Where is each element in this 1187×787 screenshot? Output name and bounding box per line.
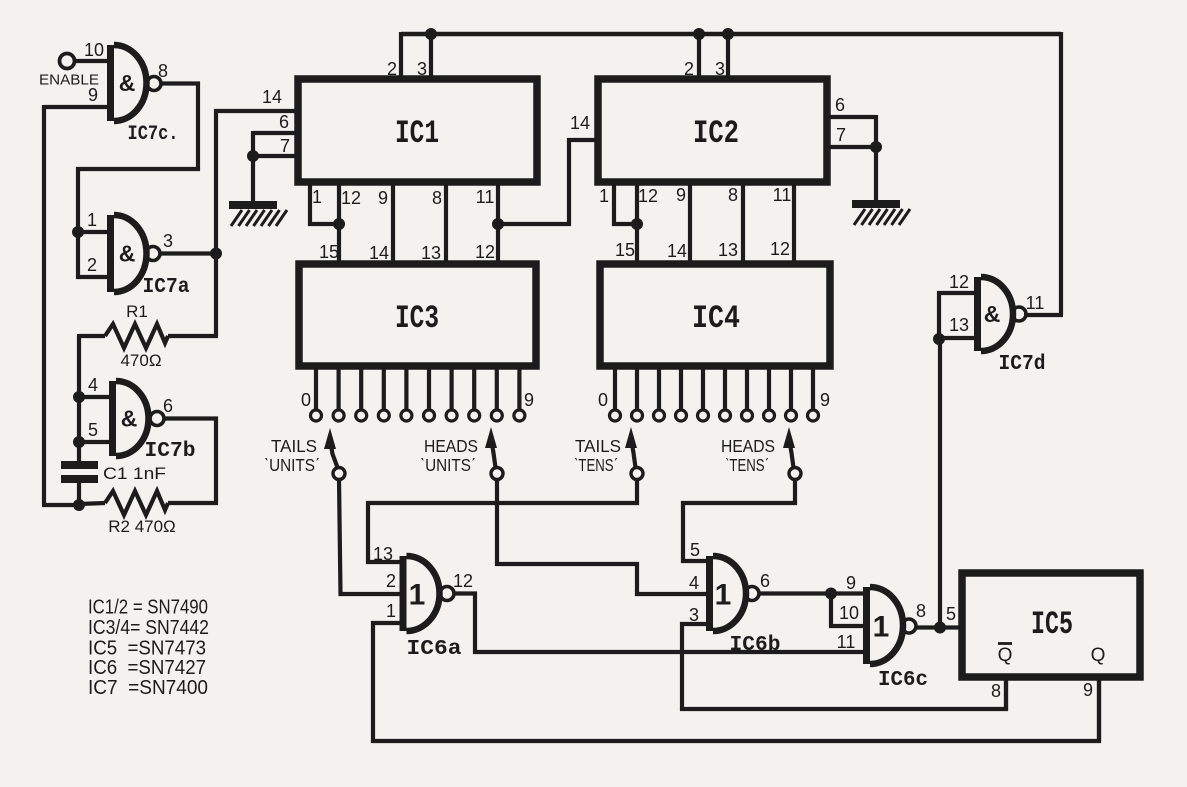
wire IC3 output 2 (359, 366, 363, 410)
wire IC4 output 4 (701, 366, 705, 410)
svg-text:IC4: IC4 (692, 300, 740, 337)
terminal IC4 output 8 (786, 410, 797, 421)
svg-text:8: 8 (991, 681, 1001, 701)
svg-text:13: 13 (421, 243, 441, 263)
node junction IC1.1-IC1.12 (333, 218, 345, 230)
svg-text:12: 12 (949, 272, 969, 292)
svg-text:6: 6 (760, 571, 770, 591)
svg-text:&: & (984, 301, 1001, 327)
svg-text:ˋUNITSˊ: ˋUNITSˊ (420, 455, 476, 475)
wire IC3 output 1 (337, 366, 341, 410)
wire R1 right lead (168, 334, 218, 338)
svg-text:6: 6 (279, 112, 289, 132)
svg-text:8: 8 (432, 188, 442, 208)
svg-text:IC7 =SN7400: IC7 =SN7400 (88, 677, 208, 699)
node junction bottom left (73, 499, 85, 511)
svg-text:IC6b: IC6b (730, 634, 781, 657)
svg-text:1: 1 (87, 210, 97, 230)
terminal IC3 output 0 (311, 410, 322, 421)
svg-text:0: 0 (598, 390, 608, 410)
wire R2 right lead (168, 501, 218, 505)
wire IC5 pin 8 Qbar down (1004, 677, 1008, 711)
svg-text:1: 1 (599, 186, 609, 206)
gate IC6b output bubble (745, 587, 759, 601)
wire R1 left lead (79, 334, 105, 338)
wire IC2 pin3 to bus (726, 34, 730, 79)
wire bus right vertical to IC7d output (1059, 32, 1063, 315)
svg-text:10: 10 (84, 40, 104, 60)
svg-text:14: 14 (667, 241, 687, 261)
terminal IC4 output 0 (610, 410, 621, 421)
gate IC7c output bubble (147, 77, 161, 91)
wire IC7b input vertical (77, 334, 81, 463)
gate IC7b output bubble (150, 412, 164, 426)
terminal IC4 output 9 (808, 410, 819, 421)
wire IC1 pin 6 to ground rail (253, 131, 298, 135)
wire IC7c output to IC7a inputs (78, 84, 198, 233)
svg-text:Q: Q (998, 645, 1013, 666)
gate IC7d NAND (974, 277, 981, 351)
svg-text:11: 11 (476, 187, 495, 207)
gate IC7b NAND (109, 381, 116, 456)
wire IC2 pin 6 (827, 115, 876, 119)
svg-text:2: 2 (386, 571, 396, 591)
terminal IC3 output 8 (491, 410, 502, 421)
svg-text:5: 5 (88, 420, 98, 440)
wire IC7d pin 13 (939, 336, 974, 340)
wire TAILS UNITS to IC6a pin 2 (339, 479, 400, 594)
terminal IC3 output 5 (424, 410, 435, 421)
wire IC7a out up to IC1 pin 14 (216, 111, 298, 254)
svg-text:14: 14 (570, 113, 590, 133)
svg-text:1: 1 (409, 579, 426, 612)
wire ground drop IC1 (251, 131, 255, 201)
node junction IC7a output (210, 248, 222, 260)
wire IC2.9 to IC4.14 (688, 182, 692, 264)
svg-text:11: 11 (1026, 293, 1045, 313)
svg-text:9: 9 (88, 85, 98, 105)
node junction IC7b pin5 (73, 436, 85, 448)
wire left rail bottom to junction (42, 503, 79, 507)
svg-text:IC1/2 = SN7490: IC1/2 = SN7490 (88, 597, 208, 619)
capacitor C1 bottom plate (61, 475, 98, 483)
ground symbol left (229, 201, 277, 209)
svg-text:12: 12 (770, 239, 790, 259)
wire HEADS UNITS to IC6b pin 4 (497, 479, 706, 594)
capacitor C1 top plate (61, 461, 98, 469)
wire IC4 output 2 (657, 366, 661, 410)
wire IC2 pin1 stub (614, 182, 637, 224)
wire IC6b pin 3 from IC5 Qbar (682, 624, 1006, 709)
terminal IC4 output 4 (698, 410, 709, 421)
wire IC3 output 9 (517, 366, 521, 410)
gate IC7a NAND (107, 215, 114, 292)
gate IC6a NOR (400, 556, 407, 631)
wire IC1 pin1 stub (310, 182, 339, 224)
svg-text:9: 9 (1083, 680, 1093, 700)
wire ENABLE to IC7c pin 10 (75, 59, 107, 63)
node junction IC2.1-IC2.12 (631, 218, 643, 230)
wire IC7b output to R2 (164, 419, 216, 504)
svg-text:12: 12 (341, 188, 361, 208)
svg-text:8: 8 (728, 185, 738, 205)
top reset bus wire (401, 32, 1061, 37)
svg-text:&: & (119, 70, 136, 96)
svg-text:7: 7 (280, 136, 290, 156)
wire IC6b output to IC6c pins 9,10 (759, 591, 863, 595)
wire HEADS TENS to IC6b pin 5 (683, 479, 795, 561)
wire IC6c pin 10 loop (831, 594, 863, 627)
svg-text:9: 9 (820, 390, 830, 410)
wire IC2.8 to IC4.13 (741, 182, 745, 264)
svg-text:ˋTENSˊ: ˋTENSˊ (725, 455, 769, 475)
node junction bus-IC1.3 (425, 28, 437, 40)
wire IC4 output 9 (811, 366, 815, 410)
node junction IC7b pin4 (73, 391, 85, 403)
svg-text:0: 0 (301, 390, 311, 410)
wire IC5 pin 9 Q down (1097, 677, 1101, 741)
wire IC7b pin 4 (79, 395, 109, 399)
svg-text:14: 14 (262, 87, 282, 107)
svg-text:13: 13 (373, 544, 393, 564)
wire IC1.8 to IC3.13 (444, 182, 448, 264)
svg-text:1: 1 (873, 611, 890, 644)
IC block IC1 (298, 79, 537, 182)
svg-text:7: 7 (836, 125, 846, 145)
wire IC4 output 7 (767, 366, 771, 410)
svg-text:1: 1 (312, 187, 322, 207)
terminal IC4 output 5 (720, 410, 731, 421)
wire IC1 pin3 to bus (429, 34, 433, 80)
wire IC1.12 to IC3.15 (337, 182, 341, 264)
svg-text:ˋUNITSˊ: ˋUNITSˊ (264, 455, 320, 475)
svg-text:5: 5 (946, 604, 956, 624)
wire IC3 output 7 (472, 366, 476, 410)
wire IC7d inputs vertical from IC6c out (938, 339, 942, 628)
switch wiper TAILS TENS (632, 441, 636, 468)
svg-text:9: 9 (846, 573, 856, 593)
svg-text:2: 2 (87, 255, 97, 275)
terminal IC4 output 3 (676, 410, 687, 421)
IC block IC3 (299, 264, 536, 366)
wire IC7a out down to R1 (214, 254, 218, 337)
node junction bus-IC2.2 (693, 28, 705, 40)
svg-text:12: 12 (475, 242, 495, 262)
terminal IC4 output 1 (632, 410, 643, 421)
svg-text:470Ω: 470Ω (120, 351, 161, 370)
svg-text:C1 1nF: C1 1nF (103, 465, 166, 483)
wire IC3 output 0 (314, 366, 318, 410)
terminal IC3 output 3 (378, 410, 389, 421)
switch wiper HEADS UNITS (492, 441, 496, 468)
svg-text:15: 15 (319, 242, 339, 262)
node junction bus-IC2.3 (722, 28, 734, 40)
wire IC7b pin 5 (79, 440, 109, 444)
svg-text:IC3: IC3 (395, 300, 439, 337)
wire IC2.12 to IC4.15 (635, 182, 639, 264)
wire IC3 output 4 (404, 366, 408, 410)
terminal ENABLE (60, 54, 75, 69)
wire IC4 output 6 (745, 366, 749, 410)
gate IC7a output bubble (146, 247, 160, 261)
terminal IC4 output 6 (742, 410, 753, 421)
node junction IC7d pin 13 (933, 333, 945, 345)
wire IC6a output to IC6c pin 11 (454, 594, 863, 653)
switch wiper TAILS UNITS (331, 442, 338, 468)
wire IC2.11 to IC4.12 (792, 182, 796, 264)
svg-text:3: 3 (163, 231, 173, 251)
gate IC7c NAND (107, 45, 114, 121)
wire IC4 output 3 (679, 366, 683, 410)
wire IC1 pin2 to bus (399, 32, 403, 80)
terminal IC3 output 9 (514, 410, 525, 421)
terminal IC3 output 4 (401, 410, 412, 421)
wire R2 left lead (79, 503, 105, 504)
svg-text:14: 14 (369, 243, 389, 263)
svg-text:Q: Q (1091, 645, 1106, 666)
wire IC4 output 0 (613, 366, 617, 410)
wire IC6c output to IC5 pin 5 (916, 625, 962, 629)
svg-text:IC5: IC5 (1031, 606, 1073, 643)
gate IC6c output bubble (902, 619, 916, 633)
svg-text:IC6c: IC6c (878, 669, 928, 692)
wire IC7a output (160, 251, 216, 255)
terminal IC4 output 7 (764, 410, 775, 421)
svg-text:IC3/4= SN7442: IC3/4= SN7442 (88, 617, 209, 639)
svg-text:1: 1 (386, 601, 396, 621)
svg-text:9: 9 (676, 185, 686, 205)
svg-text:ˋTENSˊ: ˋTENSˊ (574, 455, 618, 475)
svg-text:IC6 =SN7427: IC6 =SN7427 (88, 657, 206, 679)
switch wiper HEADS TENS (790, 441, 794, 468)
wire IC3 output 5 (427, 366, 431, 410)
svg-text:5: 5 (690, 540, 700, 560)
svg-text:13: 13 (718, 240, 738, 260)
node junction IC7a pin1 (72, 226, 84, 238)
wire IC4 output 1 (635, 366, 639, 410)
node junction IC2 pin7 ground (870, 141, 882, 153)
wire IC3 output 6 (450, 366, 454, 410)
wire IC3 output 8 (495, 366, 499, 410)
node junction IC6c out to IC7d (934, 622, 946, 634)
svg-text:IC2: IC2 (693, 115, 739, 152)
svg-text:9: 9 (524, 390, 534, 410)
wire IC7a pin 1 (78, 230, 107, 234)
wire IC1 pin 7 to ground rail (253, 154, 298, 158)
svg-text:HEADS: HEADS (721, 436, 775, 456)
svg-text:R2 470Ω: R2 470Ω (108, 517, 176, 536)
node junction IC6b out (825, 588, 837, 600)
wire IC2 pin 14 from IC1.11 column (498, 140, 598, 224)
svg-text:HEADS: HEADS (424, 436, 478, 456)
wire left rail vertical (42, 105, 46, 505)
svg-text:10: 10 (839, 603, 859, 623)
svg-text:6: 6 (835, 95, 845, 115)
svg-text:TAILS: TAILS (575, 436, 621, 456)
svg-text:9: 9 (378, 188, 388, 208)
svg-text:15: 15 (615, 240, 635, 260)
wire IC7d output pin 11 (1024, 313, 1063, 317)
wire TAILS TENS to IC6a pin 13 (368, 479, 637, 562)
svg-text:&: & (121, 406, 138, 432)
wire IC4 output 8 (789, 366, 793, 410)
svg-text:6: 6 (163, 396, 173, 416)
gate IC6c NOR (863, 587, 870, 664)
node junction IC1.11 crosswire (492, 218, 504, 230)
wire IC7c pin 9 from left rail (44, 105, 107, 109)
wire IC4 output 5 (723, 366, 727, 410)
gate IC6b NOR (706, 556, 713, 631)
svg-text:12: 12 (453, 571, 473, 591)
terminal IC3 output 1 (333, 410, 344, 421)
terminal IC3 output 7 (469, 410, 480, 421)
svg-text:8: 8 (158, 61, 168, 81)
svg-text:TAILS: TAILS (271, 436, 317, 456)
wire IC7a pin 2 loop (78, 232, 107, 277)
terminal IC3 output 6 (446, 410, 457, 421)
svg-text:4: 4 (689, 573, 699, 593)
gate IC7d output bubble (1012, 307, 1026, 321)
wire IC1.9 to IC3.14 (391, 182, 395, 264)
IC block IC4 (600, 264, 830, 366)
svg-text:IC7c.: IC7c. (128, 123, 179, 146)
svg-text:IC7a: IC7a (143, 276, 190, 299)
wire IC7d pin 12 (939, 293, 974, 338)
resistor R1 (105, 324, 168, 348)
wire ground drop IC2 (874, 115, 878, 200)
svg-text:11: 11 (773, 185, 792, 205)
wire IC2 pin2 to bus (697, 34, 701, 79)
wire IC3 output 3 (382, 366, 386, 410)
wire C1 bottom to junction (77, 483, 81, 505)
svg-text:R1: R1 (126, 302, 148, 321)
wire IC2 pin 7 (827, 145, 876, 149)
svg-text:8: 8 (916, 601, 926, 621)
svg-text:IC7b: IC7b (145, 440, 196, 463)
wire IC1.11 to IC3.12 (496, 182, 500, 264)
svg-text:11: 11 (837, 632, 856, 652)
svg-text:IC7d: IC7d (999, 353, 1046, 376)
IC block IC5 (962, 573, 1140, 677)
svg-text:12: 12 (638, 186, 658, 206)
node junction IC1 pin7 ground (247, 150, 259, 162)
svg-text:IC6a: IC6a (407, 638, 462, 661)
wire IC6a pin 1 from IC5 Q (373, 623, 1099, 741)
gate IC6a output bubble (440, 587, 454, 601)
svg-text:1: 1 (715, 579, 732, 612)
terminal IC3 output 2 (356, 410, 367, 421)
svg-text:4: 4 (88, 375, 98, 395)
svg-text:&: & (119, 241, 136, 267)
svg-text:13: 13 (949, 315, 969, 335)
resistor R2 (105, 491, 168, 515)
ground symbol right (852, 200, 900, 208)
terminal IC4 output 2 (654, 410, 665, 421)
IC block IC2 (598, 79, 827, 182)
svg-text:IC1: IC1 (395, 115, 439, 152)
